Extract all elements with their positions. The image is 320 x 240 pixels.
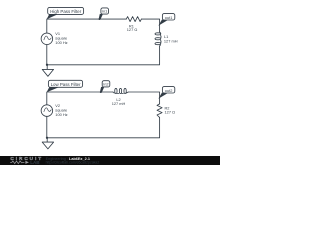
flag in1 (99, 14, 103, 20)
wire V1 top to top rail to R1 (47, 19, 127, 33)
flag out2 (158, 93, 167, 99)
wire L1 bottom to ground rail (47, 46, 160, 65)
voltage source V2 (41, 105, 53, 117)
svg-text:LAB: LAB (30, 160, 40, 165)
ground top circuit (46, 65, 48, 70)
svg-text:in2: in2 (103, 82, 108, 87)
flag out1 (158, 20, 167, 26)
wire V2 bottom to junction (46, 117, 48, 138)
node junction dot bottom circuit (46, 137, 48, 139)
svg-text:Low Pass Filter: Low Pass Filter (51, 82, 82, 87)
inductor L2 (115, 88, 117, 93)
wire V2 top to lower top rail (47, 92, 113, 105)
svg-text:100 Hz: 100 Hz (55, 112, 67, 117)
voltage source V1 (41, 33, 53, 45)
svg-text:127 mH: 127 mH (112, 101, 126, 106)
svg-text:High Pass Filter: High Pass Filter (50, 9, 82, 14)
flag High Pass Filter (47, 14, 58, 20)
ground bottom circuit (46, 138, 48, 142)
node dot in2 attach (100, 91, 102, 93)
wire R2 bottom to lower ground rail (47, 117, 160, 137)
svg-text:out2: out2 (165, 88, 173, 93)
svg-text:127 Ω: 127 Ω (165, 110, 176, 115)
resistor R2 (157, 104, 162, 118)
svg-text:out1: out1 (165, 15, 173, 20)
svg-text:127 mH: 127 mH (164, 39, 178, 44)
svg-text:in1: in1 (102, 9, 107, 14)
flag Low Pass Filter (47, 87, 59, 93)
wire L2 to out2 corner (129, 92, 160, 104)
inductor L1 (155, 33, 161, 35)
flag in2 (100, 87, 104, 93)
svg-text:127 Ω: 127 Ω (127, 27, 138, 32)
svg-text:100 Hz: 100 Hz (55, 40, 67, 45)
svg-text:http://circuitlab.com/c6ca82pz: http://circuitlab.com/c6ca82pzaka2 (46, 160, 100, 164)
node junction dot top circuit (46, 64, 48, 66)
wire V1 bottom to junction (46, 45, 48, 65)
node dot in1 attach (99, 18, 101, 20)
logo diode triangle (25, 161, 29, 164)
logo resistor zigzag (10, 161, 24, 164)
wire R1 to out1 corner (141, 19, 159, 32)
footer bar (0, 156, 220, 165)
resistor R1 (126, 17, 141, 22)
